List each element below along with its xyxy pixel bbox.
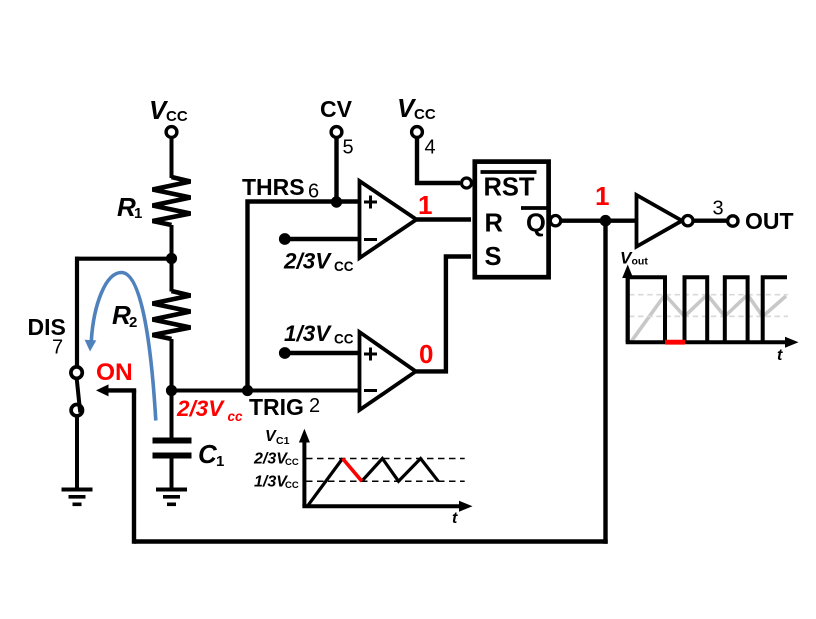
wire CV down [334,138,338,202]
Vout grey ramp wave [631,295,786,343]
svg-text:TRIG: TRIG [249,394,304,420]
plus sign comparator 2 [364,348,377,361]
terminal CV circle [331,127,342,138]
VC1 dashed 1/3 line [306,480,465,482]
VC1 dashed 2/3 line [306,458,465,460]
ground (C1) [156,488,187,507]
wire 2/3Vcc input stub [285,237,360,241]
minus sign comparator 2 [364,389,377,392]
switch contact circle upper [71,367,82,378]
svg-text:2/3V: 2/3V [176,396,225,421]
svg-text:out: out [632,256,649,268]
svg-text:t: t [777,347,783,364]
Vout square wave [628,277,787,342]
plus sign comparator 1 [364,196,377,209]
switch lever tip overlap [79,404,80,413]
wire TRIG horizontal [172,389,360,393]
RST overline [481,170,537,174]
terminal OUT circle [728,216,738,226]
svg-text:t: t [452,510,458,527]
label C1 [198,439,224,470]
svg-text:1/3V: 1/3V [254,474,288,491]
blue arrowhead [85,340,97,352]
svg-text:1: 1 [216,453,224,470]
wire R2 to C1 [170,339,174,438]
Vout grey dashed 2/3 line [629,294,788,296]
blue discharge arrow (curved) [91,273,156,421]
VC1 y axis [302,440,306,506]
red low segment (Vout) [665,340,685,345]
minus sign comparator 1 [364,238,377,241]
svg-text:0: 0 [419,339,433,369]
VC1 x axis [302,504,461,508]
wire comparator 1 to R input [417,217,472,221]
latch U1 box [475,162,549,278]
VC1 waveform: label VC1 [265,428,290,447]
svg-text:CC: CC [166,108,188,125]
wire S input [416,257,471,372]
label 2/3Vcc (red) [176,396,243,424]
resistor R2 [153,291,191,339]
svg-text:2/3V: 2/3V [283,249,332,274]
wire R1 to R2 [170,225,174,292]
op-amp comparator 1 [360,181,417,258]
svg-text:CV: CV [320,96,353,122]
wire buffer to OUT [693,218,727,222]
svg-text:CC: CC [414,106,436,123]
wire switch to ground [75,416,79,490]
label 2/3VCC small [253,451,299,469]
Vout x axis [626,340,787,344]
wire node to switch (horizontal) [75,257,172,261]
svg-text:1: 1 [595,181,609,211]
svg-text:4: 4 [425,137,436,159]
label 2/3VCC (comparator 1 ref) [283,249,354,275]
node 2/3Vcc dot [279,233,291,245]
svg-text:1/3V: 1/3V [284,321,332,346]
label R1 [117,192,142,222]
svg-text:3: 3 [713,198,724,220]
svg-text:6: 6 [308,181,319,203]
wire 1/3Vcc input stub [285,351,360,355]
svg-text:CC: CC [285,457,299,468]
resistor R1 [153,177,191,225]
Vout y axis arrowhead [622,265,633,279]
wire VCC2 to RST [417,138,460,184]
node VCC label (left supply) [149,95,188,125]
node VCC label (reset supply) [397,93,436,123]
VC1 triangle wave black [307,459,438,507]
wire down to switch [75,257,79,367]
svg-text:7: 7 [52,337,63,359]
bubble buffer output [683,216,693,226]
wire feedback to arrow [107,388,136,392]
svg-text:OUT: OUT [745,208,794,234]
svg-text:2: 2 [129,314,137,331]
svg-text:RST: RST [484,174,535,202]
buffer U2 triangle [637,195,683,247]
ground (switch) [62,488,93,507]
svg-text:1: 1 [134,205,142,222]
svg-text:C1: C1 [276,435,290,447]
op-amp comparator 2 [360,332,416,410]
node THRS/TRIG junction [242,385,253,396]
node junction DIS branch [166,253,177,264]
svg-text:S: S [485,243,502,271]
svg-text:CC: CC [334,332,354,347]
wire feedback up to switch [132,390,136,543]
wire C1 to ground [170,459,174,490]
svg-text:R: R [485,210,503,238]
svg-text:Q: Q [526,210,546,238]
svg-text:cc: cc [228,409,244,424]
svg-text:CC: CC [285,480,299,491]
switch lever [77,379,80,410]
wire THRS horizontal to comparator + [245,199,359,203]
svg-text:C: C [198,439,218,469]
capacitor C1 [153,438,192,459]
Vout grey dashed 1/3 line [629,315,788,317]
node 1/3Vcc dot [279,347,291,359]
label R2 [112,300,137,331]
Vout y axis [626,276,630,342]
node CV junction [331,196,342,207]
bubble Q output [550,216,560,226]
wire VCC to R1 [170,138,174,179]
bubble RST input [462,178,472,188]
wire feedback bottom horizontal [134,539,608,543]
svg-text:2/3V: 2/3V [253,451,288,468]
svg-text:ON: ON [96,359,133,386]
terminal VCC circle [166,127,177,138]
wire Q to buffer [561,218,638,222]
label 1/3VCC (comparator 2 ref) [284,321,354,347]
VC1 y axis arrowhead [299,429,310,443]
terminal VCC2 circle [412,127,423,138]
node Q feedback junction [600,215,612,227]
svg-text:5: 5 [343,137,354,159]
node TRIG junction on rail [166,385,177,396]
Q overline [521,206,549,210]
switch contact circle lower [71,405,82,416]
VC1 red discharge segment [343,459,362,482]
svg-text:1: 1 [418,190,432,220]
VC1 x axis arrowhead [459,501,473,512]
wire feedback Q down [603,221,607,544]
svg-text:CC: CC [334,259,354,274]
Vout waveform: label Vout [620,249,648,268]
arrowhead ON (points at switch) [96,384,109,396]
wire THRS vertical [245,204,249,391]
Vout x axis arrowhead [785,337,799,348]
svg-text:2: 2 [309,395,320,417]
svg-text:THRS: THRS [242,174,305,200]
label 1/3VCC small [254,474,299,492]
